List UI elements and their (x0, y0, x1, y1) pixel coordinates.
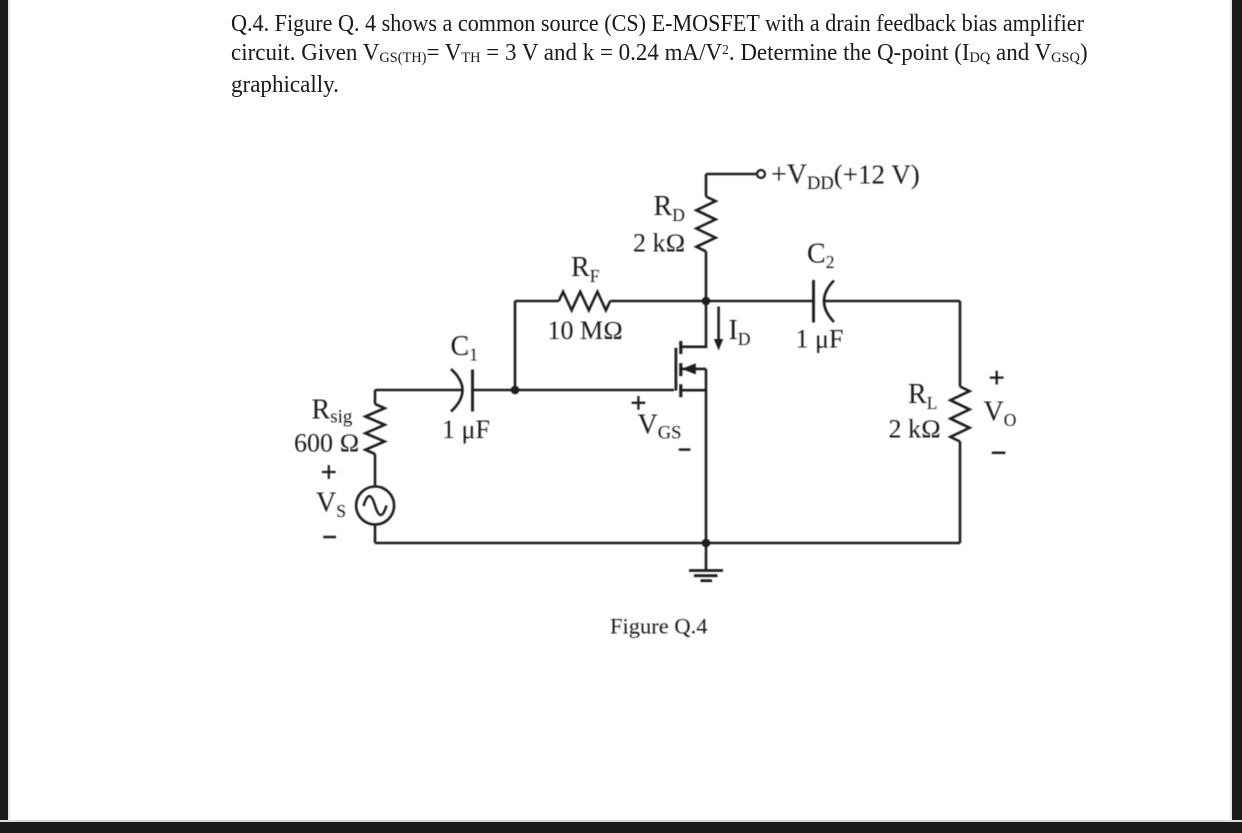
wire VDD horizontal (706, 173, 757, 176)
wire gate row (C1 to gate) (473, 389, 675, 392)
node drain junction (702, 297, 711, 306)
ground bar 2 (694, 574, 718, 577)
transistor Q1 body arrowhead (682, 363, 696, 374)
transistor Q1 drain lead (681, 301, 706, 347)
svg-text:VO: VO (984, 397, 1017, 431)
transistor Q1 channel top bar (679, 341, 682, 354)
wire C2 to right corner (824, 300, 960, 303)
resistor RL (950, 387, 969, 442)
svg-text:Figure Q.4: Figure Q.4 (610, 614, 708, 639)
svg-text:RD: RD (654, 191, 685, 225)
svg-text:10 MΩ: 10 MΩ (548, 316, 624, 345)
label minus (VGS) (679, 448, 691, 451)
wire bottom rail (375, 542, 960, 545)
svg-text:1 μF: 1 μF (442, 415, 490, 444)
wire Rsig top (374, 390, 377, 404)
wire source vertical (705, 369, 708, 543)
ground bar 1 (689, 569, 723, 572)
label plus (VGS) (632, 396, 646, 410)
label plus (Vo) (990, 371, 1004, 385)
svg-text:1 μF: 1 μF (796, 325, 844, 354)
wire RF row left (515, 300, 559, 303)
svg-text:ID: ID (729, 315, 751, 349)
svg-text:C1: C1 (451, 331, 478, 365)
svg-text:RL: RL (908, 379, 937, 413)
wire Rsig to Vs (374, 454, 377, 487)
transistor Q1 channel bottom bar (679, 384, 682, 397)
source Vs circle (356, 487, 394, 525)
svg-text:600 Ω: 600 Ω (294, 429, 359, 458)
wire RD to drain node (705, 251, 708, 301)
label minus (Vs) (323, 536, 336, 539)
svg-text:+VDD(+12 V): +VDD(+12 V) (771, 160, 920, 195)
wire RF branch vertical (514, 301, 517, 390)
wire right branch lower (959, 442, 962, 544)
svg-text:VGS: VGS (638, 410, 682, 444)
question text (231, 10, 1156, 100)
svg-text:C2: C2 (807, 239, 834, 273)
label minus (Vo) (992, 452, 1006, 455)
node gate junction (511, 386, 520, 395)
capacitor C1 curved plate (451, 369, 463, 412)
capacitor C2 straight plate (812, 280, 815, 323)
wire Vs to rail (374, 524, 377, 543)
ground stem (705, 543, 708, 570)
ID arrowhead (714, 339, 723, 351)
ID arrow line (717, 307, 720, 341)
source Vs sine (364, 496, 387, 515)
svg-text:Rsig: Rsig (312, 395, 353, 428)
transistor Q1 source lead (681, 389, 706, 392)
transistor Q1 channel mid bar (679, 363, 682, 376)
resistor RF (559, 292, 610, 311)
transistor Q1 gate bar (675, 348, 678, 391)
resistor Rsig (365, 404, 384, 454)
capacitor C2 curved plate (824, 281, 834, 323)
wire drain node to C2 (706, 300, 814, 303)
wire RF row right (610, 300, 706, 303)
capacitor C1 straight plate (471, 370, 474, 412)
transistor Q1 body lead (682, 368, 706, 371)
svg-text:RF: RF (571, 252, 600, 286)
svg-text:VS: VS (316, 488, 346, 522)
resistor RD (696, 197, 715, 252)
ground bar 3 (701, 579, 713, 582)
wire C1 left (375, 389, 462, 392)
wire VDD vertical (705, 174, 708, 197)
label plus (Vs) (322, 465, 336, 479)
VDD terminal circle (757, 170, 765, 178)
svg-text:2 kΩ: 2 kΩ (633, 228, 685, 257)
wire right branch upper (959, 301, 962, 387)
svg-text:2 kΩ: 2 kΩ (889, 415, 941, 444)
node ground junction (702, 539, 711, 548)
